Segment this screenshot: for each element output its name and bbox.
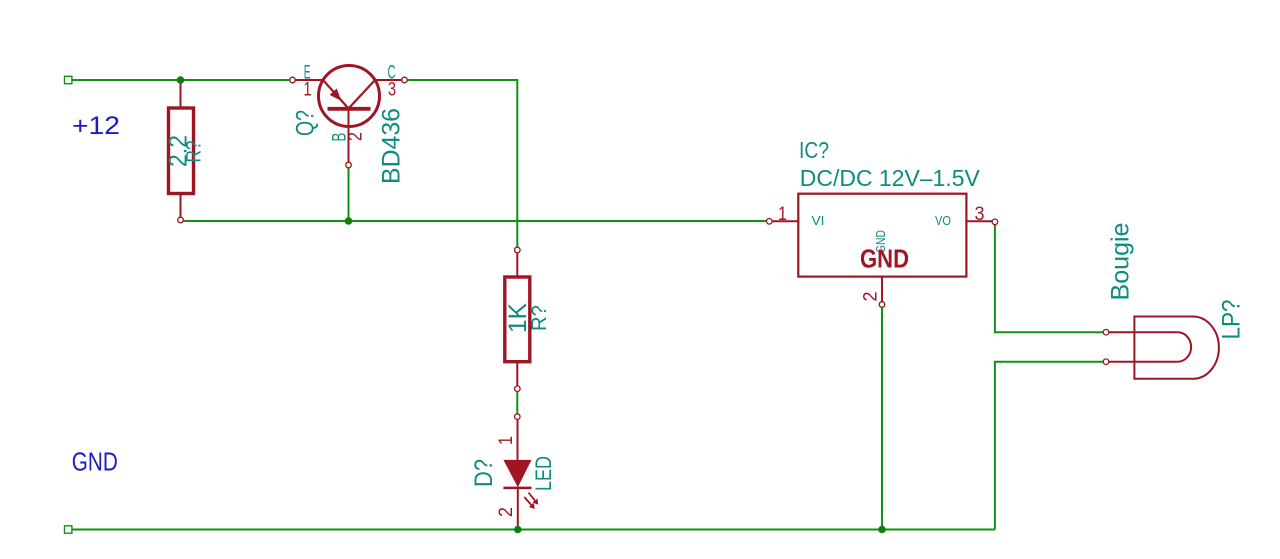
svg-text:+12: +12 — [72, 112, 120, 140]
svg-text:VO: VO — [935, 213, 951, 228]
svg-text:2: 2 — [346, 132, 367, 141]
svg-text:IC?: IC? — [799, 137, 829, 163]
svg-text:LED: LED — [531, 456, 556, 491]
svg-text:R?: R? — [183, 141, 206, 163]
svg-text:1: 1 — [304, 80, 312, 101]
svg-text:Bougie: Bougie — [1107, 223, 1135, 301]
svg-text:Q?: Q? — [292, 110, 320, 136]
svg-text:3: 3 — [388, 80, 396, 101]
svg-text:DC/DC 12V–1.5V: DC/DC 12V–1.5V — [800, 165, 981, 191]
svg-text:R?: R? — [528, 305, 551, 331]
svg-text:2: 2 — [861, 292, 882, 302]
svg-text:GND: GND — [72, 447, 118, 477]
svg-text:BD436: BD436 — [378, 108, 406, 184]
svg-text:1: 1 — [496, 436, 517, 445]
svg-text:LP?: LP? — [1218, 300, 1246, 340]
svg-text:D?: D? — [470, 459, 498, 487]
svg-text:2: 2 — [496, 507, 517, 517]
svg-text:GND: GND — [860, 244, 909, 274]
svg-text:1: 1 — [778, 204, 787, 225]
svg-text:VI: VI — [812, 213, 825, 228]
svg-text:3: 3 — [975, 204, 985, 225]
